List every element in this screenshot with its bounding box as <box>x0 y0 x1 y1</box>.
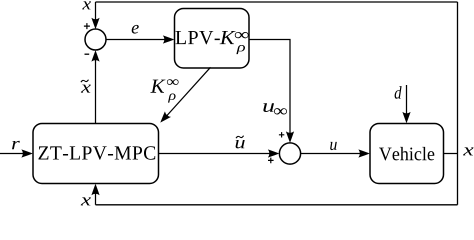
label + at S2 left input <box>268 158 274 164</box>
wire right feedback vertical <box>457 2 459 205</box>
label K_rho^inf (diagonal) <box>150 79 178 102</box>
label ZT-LPV-MPC (block text) <box>39 146 156 160</box>
wire d input into Vehicle <box>402 85 410 123</box>
label e <box>132 25 139 34</box>
block LPV-K <box>175 9 250 69</box>
label x (top feedback) <box>82 1 91 9</box>
label Vehicle (block text) <box>379 147 434 161</box>
wire top feedback horizontal (x from Vehicle output to S1) <box>96 1 458 3</box>
wire e from S1 to LPV-K block <box>106 35 174 43</box>
wire K_rho^inf diagonal arrow from LPV-K to ZT-LPV-MPC <box>157 67 210 125</box>
wire u-tilde from ZT-LPV-MPC to S2 <box>159 149 280 157</box>
label r <box>12 141 20 149</box>
label + at S2 top input <box>279 132 284 137</box>
label u <box>330 142 337 150</box>
wire top vertical into summing junction S1 <box>91 2 99 29</box>
label x-tilde <box>81 80 91 93</box>
label - at S1 bottom input <box>85 53 90 55</box>
label x (right output) <box>463 147 474 155</box>
label LPV-K_rho^inf (block text) <box>175 31 248 54</box>
label x (bottom feedback) <box>81 197 91 205</box>
block Vehicle <box>370 124 444 184</box>
block ZT-LPV-MPC <box>33 124 159 184</box>
label d <box>395 86 402 99</box>
summing junction S1 <box>85 29 106 50</box>
label u-tilde <box>236 136 245 149</box>
label u-infinity <box>263 103 287 114</box>
wire u from S2 to Vehicle <box>301 149 370 157</box>
wire bottom vertical into ZT-LPV-MPC <box>91 184 99 205</box>
wire bottom feedback horizontal <box>96 204 458 206</box>
wire x output from Vehicle to feedback node <box>444 153 458 155</box>
wire r input <box>0 149 33 157</box>
wire u-infinity from LPV-K down to S2 <box>249 40 294 143</box>
label + at S1 top input <box>84 23 90 29</box>
wire x-tilde from ZT-LPV-MPC up to S1 <box>91 50 99 123</box>
summing junction S2 <box>279 143 300 164</box>
